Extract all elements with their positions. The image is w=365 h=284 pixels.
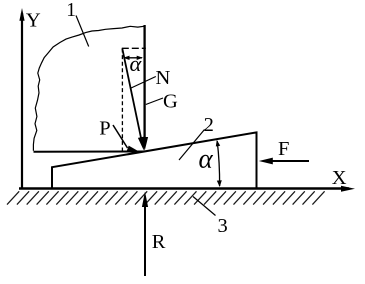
leader line for 1 (76, 16, 89, 47)
svg-text:α: α (130, 51, 143, 76)
svg-text:2: 2 (204, 114, 214, 136)
force P arrow (113, 125, 128, 148)
force G (weight) line (143, 25, 145, 139)
wedge 2 outline (52, 132, 257, 188)
Y axis arrowhead (19, 8, 24, 21)
X axis arrowhead (341, 186, 355, 192)
force N line (122, 49, 142, 146)
leader line for N (130, 77, 156, 89)
svg-text:F: F (278, 138, 289, 160)
svg-text:3: 3 (218, 215, 228, 237)
Y axis (21, 13, 23, 188)
dash-dot extension line (122, 47, 146, 49)
body 1 outline (wavy blob) (33, 26, 144, 151)
ground hatching 3 (7, 191, 325, 204)
angle alpha dimension double arrow (wedge) (217, 141, 219, 186)
leader line for 3 (193, 197, 216, 216)
svg-text:P: P (99, 117, 110, 139)
svg-text:1: 1 (66, 0, 76, 21)
svg-text:N: N (156, 67, 171, 89)
svg-text:G: G (163, 91, 178, 113)
force G arrowhead (141, 137, 148, 151)
svg-text:Y: Y (26, 9, 41, 31)
force R arrow (144, 197, 146, 276)
svg-text:X: X (332, 167, 347, 189)
svg-text:R: R (152, 231, 166, 253)
dashed vertical reference line (121, 49, 123, 151)
body 1 bottom edge (34, 151, 145, 153)
force N arrowhead (138, 137, 145, 151)
force F arrow (263, 160, 309, 162)
svg-text:α: α (199, 144, 214, 174)
leader line for 2 (179, 130, 205, 161)
X axis / ground line (19, 187, 349, 190)
leader line for G (146, 98, 163, 105)
angle alpha dimension double arrow (top) (124, 57, 142, 59)
